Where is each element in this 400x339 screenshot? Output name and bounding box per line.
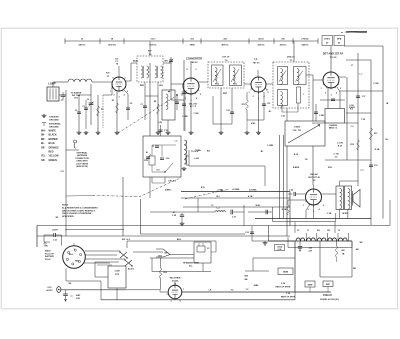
AC plug [57, 287, 61, 293]
RF transformer T2 dashed shield [137, 56, 163, 82]
resistor R15 [357, 140, 360, 150]
svg-text:CONNECTION: CONNECTION [75, 158, 89, 160]
capacitor C5 [77, 112, 81, 114]
svg-text:SPKR: SPKR [342, 213, 348, 215]
trimmer capacitor C1 [61, 95, 65, 97]
switch SW2 [125, 260, 132, 266]
wire - T2 top stub [149, 48, 151, 56]
T5 secondary coil [297, 69, 299, 85]
ground - T4 branch [219, 131, 224, 135]
wire - V2 osc grid [184, 93, 186, 131]
svg-text:BLK: BLK [177, 239, 182, 241]
wire - screen divider [97, 95, 99, 131]
svg-text:VOL. T21: VOL. T21 [293, 130, 303, 132]
svg-text:C.2B: C.2B [327, 213, 332, 215]
svg-text:R13: R13 [157, 170, 160, 172]
svg-text:1: 1 [303, 94, 304, 96]
ground symbol legend - external [42, 123, 46, 126]
svg-text:C35A: C35A [277, 245, 283, 248]
wire - long bus y225 [37, 225, 390, 227]
wire - vibrator drop [215, 241, 217, 252]
svg-text:PHILCO: PHILCO [323, 295, 332, 297]
svg-text:#1A: #1A [74, 97, 78, 100]
wire - converter top [190, 64, 192, 78]
wire - T5 out right [306, 74, 313, 76]
wire - socket leads right [85, 250, 120, 252]
wire - V1 branch right [124, 90, 128, 94]
wire - right angle top [190, 61, 192, 64]
wire - vertical x123 [122, 177, 124, 236]
svg-text:C14: C14 [166, 157, 169, 160]
filament winding labels [297, 230, 341, 232]
svg-text:R.1B: R.1B [282, 209, 287, 211]
ground - R4 [156, 131, 161, 135]
capacitor C7 [144, 96, 146, 120]
svg-text:BR-: BR- [41, 139, 45, 141]
wire - switch riser [126, 241, 128, 248]
capacitor C28 [181, 213, 183, 215]
wire - V2 grid left [171, 83, 183, 85]
external antenna hook [74, 140, 77, 149]
svg-text:LUG: LUG [76, 298, 81, 300]
wire - V2 grid cap branch [176, 95, 178, 110]
wire - right link y160 [325, 159, 371, 161]
wire - right bus x371 [370, 60, 372, 225]
wire - top right link [344, 45, 383, 47]
wire - T5 entry [266, 83, 278, 85]
svg-text:SPECIFIED.: SPECIFIED. [62, 216, 75, 218]
wire - osc vertical [170, 57, 172, 100]
band switch box [162, 90, 175, 120]
svg-text:CHASSIS: CHASSIS [329, 124, 338, 127]
loop antenna L1 [47, 87, 59, 101]
svg-text:6: 6 [195, 69, 196, 71]
svg-text:LFB 40: LFB 40 [302, 38, 310, 41]
wire - V1 top cap [118, 66, 120, 77]
wire - speaker plug drop [264, 166, 266, 186]
loop pickup winding [68, 79, 92, 82]
wire - rectifier output [182, 291, 331, 293]
resistor R22 dropper [160, 258, 162, 268]
svg-text:B.BRN: B.BRN [293, 167, 300, 169]
svg-text:RECTIFIER: RECTIFIER [170, 278, 181, 280]
svg-text:MFB: MFB [337, 38, 342, 40]
trimmer C10 [169, 60, 173, 62]
svg-text:7A8 V2: 7A8 V2 [191, 61, 199, 64]
svg-text:460 KC: 460 KC [221, 44, 229, 47]
wire - screen bus join [247, 119, 264, 121]
capacitor C30 [65, 290, 67, 294]
gang coupling dash-dot lower [93, 178, 181, 197]
filter condenser box C10B [108, 266, 126, 288]
speaker [352, 191, 354, 206]
svg-text:LIGHT: LIGHT [52, 230, 59, 232]
svg-text:47B: 47B [328, 166, 332, 169]
capacitor 1MB [315, 104, 317, 121]
svg-text:C16: C16 [233, 83, 237, 85]
ground - V2 cathode [189, 131, 194, 135]
wire - into T2 [131, 62, 137, 64]
svg-text:CHASSIS: CHASSIS [49, 116, 59, 119]
wire - bus y198 [181, 197, 290, 199]
wire - out of T2 [163, 62, 171, 64]
svg-text:248 KC: 248 KC [301, 44, 309, 47]
electrolytic label C30A [323, 281, 333, 287]
wire - speaker bracket [186, 150, 189, 165]
wire - socket top lead [73, 243, 75, 246]
svg-text:BATTERY: BATTERY [45, 255, 55, 258]
T5 secondary can [294, 67, 307, 85]
svg-text:EXTERNAL: EXTERNAL [49, 123, 61, 126]
wire - band switch drop [167, 120, 169, 131]
svg-text:C18: C18 [267, 103, 270, 105]
svg-text:DET AND 1ST AF: DET AND 1ST AF [323, 53, 344, 56]
svg-text:BLUE: BLUE [49, 143, 56, 145]
tube V1 [112, 77, 126, 91]
wire - right tie y113 [346, 112, 371, 114]
svg-text:41-E28: 41-E28 [172, 279, 179, 282]
svg-text:GROUND: GROUND [49, 120, 59, 122]
battery socket P1 [63, 246, 86, 269]
wire - V3 cathode [258, 92, 260, 131]
svg-text:GR-: GR- [41, 160, 45, 162]
capacitor C27 [231, 210, 233, 215]
wire - right bus x358 [357, 53, 359, 186]
wire - AVC bus segment [78, 95, 80, 131]
svg-text:C2: C2 [152, 146, 154, 148]
wire - top dial-scale dimension line [65, 40, 318, 42]
capacitor C14 in T3 [160, 158, 164, 160]
ground - C5 [77, 131, 82, 135]
svg-text:PBP: PBP [223, 93, 228, 95]
wire - vc lower loop [151, 258, 153, 272]
electrolytic label C30B [305, 281, 315, 287]
wire - T4 bottoms [220, 88, 222, 96]
wire - lamp leads [44, 234, 54, 236]
svg-text:3 MEG: 3 MEG [349, 107, 356, 109]
svg-text:540 KC: 540 KC [78, 44, 86, 47]
svg-text:PART OF SPKR: PART OF SPKR [276, 286, 291, 289]
svg-text:C.1BB: C.1BB [267, 145, 274, 147]
svg-text:C.7BL: C.7BL [373, 83, 380, 85]
wire - return segment y258 [253, 257, 295, 259]
tube V8 rectifier [168, 285, 182, 299]
wire - V2 plate right [199, 81, 208, 83]
svg-text:2B4B: 2B4B [283, 271, 289, 274]
svg-text:41B: 41B [158, 255, 162, 258]
wire - V1 cathode drop [116, 91, 118, 131]
power transformer outline [288, 247, 352, 249]
wire - plate load link [346, 59, 371, 61]
wire - v4 left cap [313, 120, 325, 122]
wire - V5 cathode [288, 199, 306, 201]
svg-text:OSC T.3: OSC T.3 [168, 181, 177, 183]
svg-text:RED: RED [49, 152, 54, 154]
svg-text:1 MEG: 1 MEG [294, 127, 301, 129]
T5 tertiary coil [281, 92, 283, 108]
svg-text:TRIM: TRIM [189, 45, 194, 47]
osc coil L5 [184, 140, 186, 164]
wire - bus end vertical [289, 192, 291, 226]
svg-text:ARE IN OHMS & MFD RESPECT-: ARE IN OHMS & MFD RESPECT- [62, 209, 96, 212]
svg-text:C.T.B: C.T.B [333, 154, 339, 156]
switch arm in T3 [165, 163, 173, 172]
svg-text:SW. TAB: SW. TAB [72, 94, 81, 97]
svg-text:IVELY UNLESS OTHERWISE: IVELY UNLESS OTHERWISE [62, 213, 92, 215]
resistor R12 [246, 100, 249, 110]
svg-text:CONVERTER: CONVERTER [186, 57, 202, 61]
filament base line [269, 240, 353, 242]
svg-text:YELLOW: YELLOW [49, 156, 60, 158]
wire - loop bottom to bus [59, 94, 66, 96]
svg-text:WH-: WH- [41, 131, 46, 133]
svg-text:C10B: C10B [114, 271, 120, 273]
capacitor C17 [356, 96, 360, 98]
ground - R12 [245, 131, 250, 135]
svg-text:C17: C17 [362, 96, 365, 98]
wire - bus y207 [183, 206, 290, 208]
svg-text:WHITE: WHITE [49, 131, 57, 133]
wire - electrolytic stubs [309, 287, 311, 292]
pencil smudge mark top right [346, 31, 367, 33]
svg-text:BK-: BK- [41, 135, 45, 137]
wire - detector out link [339, 90, 383, 92]
svg-text:GROUND: GROUND [49, 127, 59, 129]
junction dot C13 [176, 94, 178, 96]
capacitor C9 [182, 104, 186, 106]
svg-text:OR-: OR- [41, 147, 45, 149]
svg-text:-4B: -4B [355, 248, 359, 251]
wire - switch to connector [133, 251, 163, 253]
wire - long bus y236 [37, 235, 290, 237]
wire - right bus x383 [382, 46, 384, 219]
ground - bypass [84, 131, 89, 135]
wire - V4 grid drop [327, 88, 329, 109]
terminal strip label box [325, 109, 345, 124]
svg-text:LFB/C: LFB/C [324, 38, 331, 40]
volume control arm [288, 125, 320, 144]
wire - bus y234 [141, 233, 246, 235]
ground - V3 cathode [256, 131, 261, 135]
tube V4 detector [323, 72, 339, 88]
svg-text:MODEL 40-180 (21): MODEL 40-180 (21) [320, 298, 339, 301]
svg-text:40-41: 40-41 [258, 38, 264, 41]
switch SW1 [120, 252, 127, 258]
band switch coil [166, 94, 168, 110]
wire - bus y191 [181, 191, 290, 193]
label C12 [160, 125, 162, 136]
svg-text:B.L.: B.L. [189, 266, 193, 268]
wire - T6 top [339, 181, 341, 186]
wire - T3 internal [151, 145, 153, 156]
wire - dim drop to T2 [149, 41, 151, 48]
wire - V4 right pin [339, 76, 346, 78]
capacitor C6 [126, 108, 130, 110]
svg-text:-BAT: -BAT [76, 294, 81, 297]
svg-text:BLACK: BLACK [49, 134, 57, 137]
svg-text:RED: RED [75, 261, 80, 263]
wire - osc vertical 2 [183, 60, 185, 131]
svg-text:-12V: -12V [308, 251, 313, 253]
wire - T2 bottom right [157, 82, 159, 96]
wire - det vertical link [312, 80, 314, 121]
svg-text:WH: WH [164, 61, 168, 63]
wire - right edge vertical [389, 200, 391, 226]
resistor R4 [157, 104, 160, 114]
wire - loop to pickup coil [52, 82, 54, 87]
svg-text:RED: RED [140, 85, 145, 87]
svg-text:R.F.: R.F. [106, 73, 110, 75]
wire - mid vertical lower [149, 177, 151, 198]
resistor R14 in T5 [297, 87, 301, 103]
wire - choke box vertical [197, 198, 199, 212]
svg-text:1500 KC: 1500 KC [108, 45, 117, 47]
wire - lines into switch [95, 261, 119, 263]
capacitor C3 [84, 108, 88, 110]
svg-text:+1 BBL: +1 BBL [217, 189, 225, 191]
svg-text:C19: C19 [374, 165, 377, 167]
svg-text:260 KC: 260 KC [257, 45, 265, 47]
svg-text:PLUG: PLUG [45, 259, 51, 261]
battery socket pins [66, 249, 81, 265]
tuning capacitor C2 [90, 84, 92, 125]
svg-text:B.2T: B.2T [338, 146, 343, 148]
filament string coils [296, 233, 349, 241]
wire - volume bottom [286, 146, 288, 236]
wire - rect cathode stub [174, 281, 176, 285]
gang coupling dash-dot upper [118, 96, 176, 133]
wire - plug feed [61, 289, 126, 291]
gang coupling dash-dot tail [185, 189, 230, 199]
filter choke L2 [150, 211, 215, 213]
T3 extra trimmer [146, 154, 151, 160]
svg-text:ORANGE: ORANGE [49, 146, 60, 149]
boxed label MFB 40 [334, 36, 345, 46]
wire - V1 plate to RF transformer [126, 80, 131, 82]
svg-text:#11.7: #11.7 [150, 39, 156, 41]
svg-text:MB33 7.2: MB33 7.2 [329, 128, 337, 130]
wire - V5 top stub [313, 185, 315, 189]
wire - long bus y218 [255, 218, 371, 220]
field coil enclosure [273, 221, 336, 223]
T5 primary can [278, 67, 288, 85]
svg-text:PART OF SPKR: PART OF SPKR [281, 295, 296, 298]
svg-text:C20: C20 [226, 110, 230, 112]
wire - left vertical bus [65, 90, 67, 236]
wire - bottom return [101, 299, 295, 301]
wire - volume to V5 [312, 146, 314, 185]
ground - C28 [180, 222, 185, 226]
T4 secondary coil [233, 68, 235, 84]
oscillator transformer box T3 [143, 136, 181, 177]
T5 primary coil [281, 69, 283, 85]
svg-text:EXTERNAL: EXTERNAL [77, 152, 89, 155]
svg-text:OUTPUT 41: OUTPUT 41 [308, 176, 321, 179]
resistor R17 [370, 128, 373, 140]
svg-text:7.7B: 7.7B [361, 119, 366, 121]
svg-text:USED WITH: USED WITH [76, 161, 88, 163]
dial lamp capacitor C31 [54, 233, 56, 237]
svg-text:YEL-: YEL- [41, 156, 47, 158]
svg-text:L7B: L7B [158, 122, 162, 124]
wire - T2 bottom left [144, 82, 146, 96]
svg-text:PYR: PYR [115, 274, 120, 276]
ground - osc [182, 167, 187, 171]
wire - filament base [252, 240, 294, 242]
wire - osc link [171, 99, 184, 101]
wire - long mid vertical [149, 63, 151, 136]
svg-text:BL: BL [146, 152, 148, 154]
coupling capacitor C24 [294, 192, 296, 196]
svg-text:NOTE:: NOTE: [62, 205, 69, 207]
svg-text:R17: R17 [374, 133, 377, 135]
resistor R23 [336, 241, 338, 246]
wire - avc line [213, 123, 232, 125]
svg-text:A.1B: A.1B [248, 195, 253, 198]
wire - V3 top [257, 70, 259, 77]
capacitor C32 [251, 226, 253, 241]
tube V2 converter [183, 78, 199, 94]
colour code legend text [41, 131, 59, 162]
boxed label LFB/C 40 [322, 36, 333, 46]
svg-text:TO RANGE: TO RANGE [71, 92, 82, 95]
wire - under-T4 verticals [220, 96, 222, 131]
wire - B+ riser [294, 241, 296, 292]
svg-text:A.7BNL: A.7BNL [232, 188, 240, 191]
svg-text:A.7WBL: A.7WBL [249, 188, 257, 191]
T4 secondary can [230, 65, 242, 86]
svg-text:MALE: MALE [45, 250, 51, 253]
T5 tertiary can [278, 90, 288, 106]
ground - C30 arrow [64, 298, 66, 301]
T4 primary coil [215, 68, 217, 84]
capacitor C20 [230, 112, 234, 114]
svg-text:AC/DC: AC/DC [128, 268, 135, 271]
svg-text:WH: WH [159, 85, 163, 87]
svg-text:C 282: C 282 [193, 113, 198, 115]
volume control R16 box [285, 121, 325, 146]
tube V5 output [306, 189, 322, 205]
svg-text:ANTENNA: ANTENNA [77, 154, 87, 157]
resistor R1 [97, 106, 100, 116]
svg-text:1ST I.F.: 1ST I.F. [222, 57, 230, 59]
svg-text:6.3V: 6.3V [47, 287, 52, 289]
svg-text:7B7 V3: 7B7 V3 [253, 63, 261, 65]
output transformer T6 secondary [345, 186, 352, 210]
wire - volume top left [286, 108, 288, 121]
wire - dashed avc vertical [102, 95, 104, 128]
svg-text:7: 7 [250, 90, 251, 92]
svg-text:R22: R22 [163, 272, 167, 274]
ground - filament [263, 242, 268, 246]
wire - return segment y271 [245, 270, 269, 272]
wire - speaker return line [150, 257, 194, 259]
wire - C27 drop [243, 205, 245, 226]
ground symbol legend - chassis [42, 114, 47, 118]
svg-text:(SEE NOTE): (SEE NOTE) [76, 166, 88, 168]
dial frequency labels [78, 38, 309, 47]
svg-text:BL-: BL- [41, 143, 45, 145]
svg-text:C.17B: C.17B [337, 143, 343, 145]
svg-text:LOOP UNITS: LOOP UNITS [76, 163, 89, 165]
resistor R2 cathode [116, 103, 119, 113]
wire - V5 plate [322, 193, 337, 195]
ground - band switch [166, 131, 171, 135]
wire - T4 to V3 [244, 83, 251, 85]
padder capacitor C13 [182, 92, 186, 94]
svg-text:600 KC: 600 KC [149, 45, 157, 47]
svg-text:GREEN: GREEN [49, 160, 58, 162]
